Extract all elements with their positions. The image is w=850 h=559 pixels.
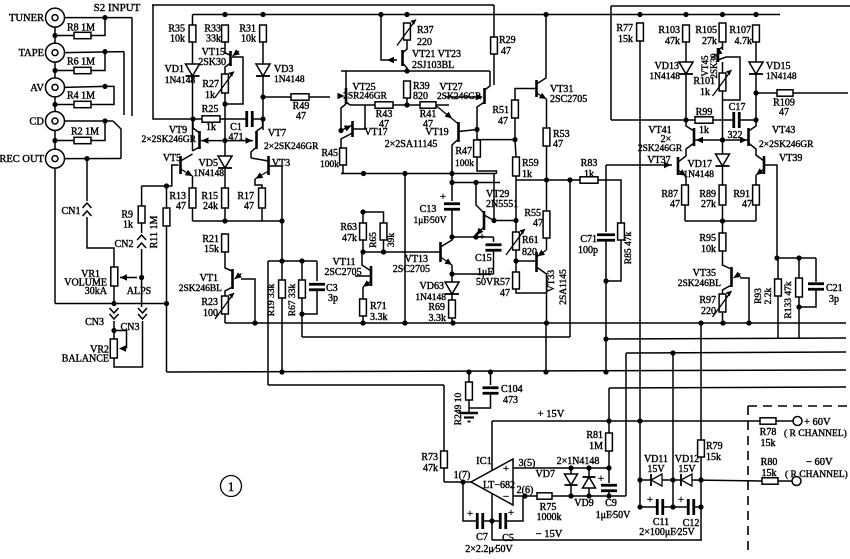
- node R133 C21 bottom: [796, 304, 801, 309]
- wire VT9 source: [193, 147, 200, 151]
- svg-text:R77: R77: [616, 23, 633, 34]
- label 1N4148: [649, 72, 680, 82]
- connector CN1 chevron 1: [83, 203, 92, 208]
- svg-text:1N4148: 1N4148: [165, 76, 196, 86]
- resistor R21: [222, 234, 229, 252]
- svg-text:4.7k: 4.7k: [735, 36, 753, 47]
- resistor R27 variable: [215, 72, 234, 98]
- svg-text:220: 220: [701, 306, 716, 317]
- label VD3: [274, 64, 293, 75]
- svg-text:+ 60V: + 60V: [804, 417, 831, 428]
- svg-text:15k: 15k: [761, 438, 776, 449]
- svg-text:VT19: VT19: [425, 127, 448, 138]
- wire VT25 drain: [345, 71, 347, 88]
- svg-text:VD13: VD13: [655, 61, 679, 72]
- wire R47 top: [476, 130, 478, 141]
- wire S2 down to R8: [91, 18, 105, 36]
- label 30kA: [85, 286, 108, 297]
- transistor VT31 bar: [535, 80, 538, 97]
- wire VD12 right: [692, 480, 762, 481]
- wire R31 to VD3: [262, 42, 264, 64]
- wire R73 column: [443, 385, 445, 451]
- label 473: [503, 395, 518, 406]
- wire VD11 column: [639, 421, 641, 480]
- label C11: [653, 517, 669, 528]
- label VT39: [779, 153, 802, 164]
- wire R47 bottom: [477, 157, 497, 174]
- connector TAPE jack: [46, 43, 65, 62]
- wire selector ground to bus: [166, 304, 168, 373]
- node R61 top: [513, 218, 518, 223]
- arrow VT21 gate: [387, 57, 394, 63]
- node VD11 junction bus: [670, 350, 675, 355]
- label R8 1M: [67, 23, 95, 34]
- label C7C5 value: [465, 544, 513, 555]
- label R57: [493, 277, 510, 288]
- connector CD jack: [46, 112, 65, 131]
- wire jack bus seg2: [54, 62, 56, 78]
- svg-text:BALANCE: BALANCE: [62, 354, 109, 365]
- wire VR2 bottom loop: [114, 321, 143, 367]
- diode VD15: [749, 62, 763, 74]
- wire R11 column: [166, 186, 168, 208]
- node rail R71: [360, 320, 365, 325]
- svg-text:1N4148: 1N4148: [649, 72, 680, 82]
- label TAPE: [19, 48, 44, 59]
- label R107: [729, 25, 751, 36]
- wire CN3a lower: [113, 321, 115, 339]
- svg-text:473: 473: [503, 395, 518, 406]
- node TAPE junction: [102, 49, 107, 54]
- label 2x1N4148: [557, 456, 600, 467]
- label C21: [826, 283, 843, 294]
- wire stage2 top rail: [341, 70, 490, 72]
- wire R6 left: [55, 70, 74, 72]
- wire VD15 down: [755, 74, 757, 120]
- svg-text:R29: R29: [499, 35, 516, 46]
- label VT7 type: [264, 142, 319, 152]
- resistor R9: [138, 206, 145, 223]
- resistor R29: [491, 37, 498, 54]
- wire VT3 emitter down: [255, 179, 262, 188]
- svg-text:1N4148: 1N4148: [274, 75, 305, 85]
- wire VD7 top lead: [570, 468, 572, 474]
- svg-text:R105: R105: [695, 25, 717, 36]
- label R27: [202, 79, 219, 90]
- label 10k: [701, 244, 716, 255]
- capacitor C104: [483, 388, 499, 394]
- wire R51 bottom: [514, 118, 516, 140]
- wire VT31 collector: [537, 15, 547, 85]
- svg-text:15V: 15V: [678, 464, 696, 475]
- svg-text:R61: R61: [522, 235, 539, 246]
- svg-text:C21: C21: [826, 283, 843, 294]
- transistor VT21 channel: [401, 50, 404, 66]
- wire feedback vertical: [267, 261, 269, 385]
- svg-text:− 15V: − 15V: [536, 529, 563, 540]
- resistor R71: [360, 299, 367, 316]
- wire VT33 e to R55: [546, 238, 548, 250]
- node rail R15: [222, 218, 227, 223]
- label 15k: [761, 438, 776, 449]
- wire R59 top: [515, 140, 516, 157]
- wire IC1 output: [444, 481, 471, 483]
- wire VT37 collector: [678, 156, 686, 162]
- wire R107 to VD15: [755, 42, 757, 62]
- label IC1 minus: [503, 491, 509, 503]
- label R53: [553, 129, 570, 140]
- diode VD63: [445, 282, 459, 294]
- node VT25 VT17 junction: [338, 128, 343, 133]
- resistor R51: [512, 100, 519, 118]
- wire R23 bottom: [224, 314, 226, 323]
- resistor R87: [682, 185, 689, 205]
- svg-text:CN1: CN1: [62, 206, 81, 217]
- label VT11: [333, 257, 356, 268]
- svg-text:15k: 15k: [762, 468, 777, 479]
- svg-text:1: 1: [228, 479, 235, 494]
- svg-text:2SC2705: 2SC2705: [550, 94, 587, 105]
- wire VD5 down: [224, 168, 226, 188]
- node out line VT19: [449, 180, 454, 185]
- svg-text:VD3: VD3: [274, 64, 293, 75]
- label 100k: [320, 160, 339, 170]
- terminal +60V: [793, 417, 802, 426]
- node rail VT33: [544, 320, 549, 325]
- transistor VT13 emitter: [441, 257, 453, 265]
- node R51 R59 junction: [512, 137, 517, 142]
- transistor VT11 emitter: [363, 280, 371, 287]
- wire R81 column: [608, 388, 610, 433]
- svg-text:R11 1M: R11 1M: [149, 216, 160, 249]
- wire R79 column top: [700, 323, 702, 440]
- label R105: [695, 25, 717, 36]
- svg-text:+: +: [598, 473, 604, 485]
- label CN3 second: [121, 322, 140, 333]
- wire VT31 base: [515, 89, 537, 101]
- wire R69 bottom: [451, 318, 453, 323]
- wire C12 right lead: [694, 506, 701, 508]
- wire VD17 down: [722, 166, 724, 185]
- svg-text:47k: 47k: [342, 233, 357, 244]
- wire VT37 emitter down: [685, 176, 687, 185]
- resistor R95: [719, 233, 726, 251]
- capacitor C5: [500, 513, 506, 529]
- label VT9: [169, 125, 187, 136]
- svg-text:R71: R71: [370, 301, 387, 312]
- svg-text:1k: 1k: [522, 169, 532, 180]
- transistor VT19 emitter: [436, 106, 459, 124]
- wire R45 bottom: [342, 165, 344, 174]
- capacitor C11: [657, 499, 663, 515]
- label 2SK30: [198, 57, 226, 68]
- node bus R249: [466, 369, 471, 374]
- label R6 1M: [67, 57, 95, 68]
- label R91: [733, 189, 750, 200]
- resistor R99: [695, 117, 713, 123]
- label R channel plus: [784, 428, 847, 439]
- label R9: [121, 210, 133, 221]
- svg-text:+: +: [479, 231, 485, 243]
- label BALANCE: [62, 354, 109, 365]
- diode VD13: [679, 62, 693, 74]
- resistor R65: [380, 223, 387, 240]
- transistor VT15 gate arrow: [233, 49, 241, 56]
- wire CN1 upper: [86, 159, 88, 201]
- svg-text:2SJ103BL: 2SJ103BL: [412, 60, 454, 71]
- wire C13 column top: [451, 183, 453, 202]
- wire feedback drop: [569, 180, 571, 337]
- resistor R77: [637, 23, 644, 41]
- label R65: [369, 232, 379, 248]
- wire R133 bottom: [798, 297, 800, 307]
- wire VT27 gate line: [445, 96, 479, 98]
- connector CN2 chevron 2: [137, 243, 146, 248]
- label 220: [417, 37, 432, 48]
- label R31: [239, 24, 256, 35]
- label 2SK246BL: [179, 284, 222, 294]
- wire R19 bottom long: [281, 298, 283, 372]
- wire IC1 supply drop: [491, 421, 493, 540]
- wire R55 top: [546, 180, 548, 211]
- svg-text:2×2.2μ∕50V: 2×2.2μ∕50V: [465, 544, 513, 554]
- wire inverting drop: [625, 353, 627, 496]
- svg-text:47: 47: [501, 46, 511, 57]
- resistor R55: [543, 211, 550, 238]
- transistor VT43 channel: [747, 128, 750, 146]
- wire VT3 collector: [251, 158, 269, 161]
- label REC OUT: [0, 154, 45, 165]
- node CD junction: [102, 118, 107, 123]
- svg-text:47: 47: [779, 107, 789, 118]
- wire C11 left lead: [640, 480, 657, 507]
- wire R103 to VD13: [685, 42, 687, 62]
- label 15k: [706, 452, 721, 463]
- label VD13: [655, 61, 679, 72]
- svg-text:ALPS: ALPS: [127, 286, 151, 297]
- label VD1: [165, 64, 184, 75]
- svg-text:2×100μF∕25V: 2×100μF∕25V: [639, 527, 695, 538]
- node REC OUT junction: [84, 156, 89, 161]
- svg-text:CN3: CN3: [85, 317, 104, 328]
- wire jack bus seg4: [54, 131, 56, 150]
- svg-text:C9: C9: [605, 498, 617, 509]
- node VT17 R63 junction: [360, 209, 365, 214]
- wire R59 to R61: [515, 180, 517, 232]
- svg-text:2×2SK246GR: 2×2SK246GR: [142, 135, 197, 145]
- label C71: [580, 234, 597, 245]
- wire C71 bottom: [605, 240, 607, 372]
- node R39 bottom: [404, 102, 409, 107]
- svg-text:3.3k: 3.3k: [370, 312, 388, 323]
- svg-text:15V: 15V: [647, 464, 665, 475]
- label R87: [661, 189, 678, 200]
- wire R63 top: [362, 212, 364, 223]
- node C17 R107: [753, 117, 758, 122]
- wire gate line VT9 VT7: [201, 140, 253, 142]
- connector TUNER jack: [46, 8, 65, 27]
- svg-text:1N4148: 1N4148: [193, 169, 224, 179]
- wire C15 top lead: [493, 237, 495, 242]
- label R33: [204, 24, 221, 35]
- resistor R79: [698, 440, 705, 457]
- wire C7 C5 link: [483, 520, 500, 522]
- resistor R6: [74, 67, 91, 73]
- label VT33: [547, 270, 557, 292]
- wire left block border: [153, 5, 193, 119]
- node stage2 rail mid: [402, 171, 407, 176]
- label +15V: [538, 409, 565, 420]
- wire VD11 line: [640, 479, 650, 481]
- diode VD9: [583, 477, 596, 488]
- resistor R17: [259, 188, 266, 208]
- resistor R11: [163, 208, 170, 226]
- resistor R49: [291, 94, 309, 100]
- capacitor C12: [688, 499, 694, 515]
- node ground line R11: [164, 301, 169, 306]
- label R55: [524, 208, 541, 219]
- svg-text:R25: R25: [202, 104, 219, 115]
- label LT-682: [483, 480, 515, 491]
- label VD15: [766, 61, 790, 72]
- transistor VT17 bar: [351, 121, 354, 137]
- svg-text:VT43: VT43: [772, 125, 795, 136]
- wire VT43 drain: [749, 120, 757, 131]
- diode VD5: [218, 156, 232, 168]
- label S2 INPUT: [94, 2, 141, 14]
- node VT21 gate rail: [378, 12, 383, 17]
- svg-text:C5: C5: [502, 533, 514, 544]
- label R103: [658, 25, 680, 36]
- diode VD11: [651, 474, 662, 486]
- wire VT19 collector: [452, 139, 459, 183]
- wire right block drop: [610, 6, 612, 120]
- transistor VT41 channel: [693, 128, 696, 146]
- svg-text:CD: CD: [29, 117, 44, 128]
- wire VT7 source: [251, 147, 257, 158]
- wire CD down to R2: [91, 121, 105, 141]
- label R41: [420, 109, 437, 120]
- svg-text:VT39: VT39: [779, 153, 802, 164]
- wire R21 to VT1: [225, 252, 232, 271]
- svg-text:1k: 1k: [206, 122, 216, 133]
- svg-text:1000k: 1000k: [537, 512, 562, 523]
- label R47: [455, 146, 472, 157]
- node VD15 R109: [753, 90, 758, 95]
- wire VT25 source to VT17: [341, 104, 346, 131]
- wire base line VT13: [363, 251, 441, 253]
- wire R93 top: [777, 258, 779, 279]
- node R99 left: [683, 117, 688, 122]
- wire gate return line: [142, 165, 179, 186]
- node R27 bottom: [222, 101, 227, 106]
- wire C71 column: [605, 165, 607, 232]
- svg-text:VT37: VT37: [647, 155, 670, 166]
- label VR2: [90, 345, 109, 356]
- svg-text:47: 47: [670, 199, 680, 210]
- node C71 R85: [603, 278, 608, 283]
- transistor VT35 gate arrow: [734, 272, 742, 279]
- wire C7 drop: [463, 482, 477, 521]
- svg-text:+: +: [678, 494, 684, 506]
- wire C21 top: [815, 258, 817, 282]
- transistor VT45 gate arrow: [711, 49, 723, 58]
- resistor R80: [762, 478, 778, 484]
- terminal -60V: [792, 477, 801, 486]
- wire R15 bottom: [224, 208, 226, 221]
- wire R67 top lead: [301, 261, 303, 280]
- transistor VT3 bar: [267, 156, 270, 175]
- label R29: [499, 35, 516, 46]
- resistor R249: [466, 382, 473, 400]
- wire VD7 bottom lead: [570, 486, 572, 496]
- label C7 plus: [467, 508, 473, 520]
- svg-text:C15: C15: [475, 253, 492, 264]
- resistor R23 variable: [215, 293, 234, 319]
- connector CN3b chevron 1: [138, 308, 147, 313]
- wire VD5 top lead: [224, 141, 226, 156]
- label VT29: [486, 189, 509, 200]
- op-amp IC1: [471, 459, 513, 505]
- wire VT45 drain: [718, 47, 723, 50]
- label VT43 type: [759, 140, 814, 150]
- resistor R2: [74, 137, 91, 143]
- svg-text:R59: R59: [522, 158, 539, 169]
- label 2SK30: [709, 53, 719, 79]
- label 1k: [699, 125, 709, 136]
- svg-text:2SK246GR: 2SK246GR: [638, 144, 683, 154]
- node rail R79: [698, 320, 703, 325]
- svg-text:47: 47: [244, 201, 254, 212]
- label VT35: [693, 268, 716, 279]
- node pin2: [522, 493, 527, 498]
- wire R19 top lead: [281, 261, 283, 280]
- label VD12: [675, 454, 699, 465]
- label R channel minus: [785, 469, 848, 480]
- wire VT19 base: [459, 130, 478, 132]
- svg-text:1k: 1k: [205, 90, 215, 101]
- label 33k: [206, 34, 221, 45]
- svg-text:2.2k: 2.2k: [764, 287, 774, 304]
- label 471: [229, 132, 244, 143]
- wire R93 bottom: [777, 296, 779, 339]
- wire VT7 drain: [257, 119, 263, 131]
- resistor R25: [202, 116, 220, 122]
- resistor R53: [543, 128, 550, 146]
- svg-text:27k: 27k: [702, 36, 717, 47]
- arrow VT37 gate: [664, 162, 671, 168]
- node VD12 R79col: [698, 477, 703, 482]
- wire R101 top: [722, 62, 724, 73]
- resistor R107: [753, 25, 760, 42]
- svg-text:R85 47k: R85 47k: [624, 232, 634, 265]
- svg-text:REC OUT: REC OUT: [0, 154, 45, 165]
- wire CN2 down to wiper: [141, 249, 143, 307]
- wire VT29 collector up: [493, 174, 495, 221]
- label VD11: [644, 454, 668, 465]
- wire VT5 emitter down: [192, 176, 194, 188]
- label C13 val: [413, 216, 446, 226]
- capacitor C3: [309, 284, 325, 290]
- label 47: [553, 139, 563, 150]
- svg-text:AV: AV: [30, 83, 44, 94]
- svg-text:R99: R99: [696, 107, 713, 118]
- svg-text:47k: 47k: [423, 463, 438, 474]
- node TUNER junction: [102, 15, 107, 20]
- resistor R47: [474, 140, 481, 157]
- node R65 bottom: [381, 249, 386, 254]
- node VR1 wiper junction: [139, 275, 144, 280]
